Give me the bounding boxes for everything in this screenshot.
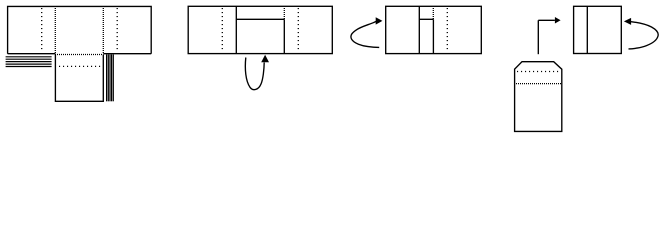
step2 right sparse fold mark (297, 8, 299, 52)
step2 folded flap left edge (235, 6, 237, 53)
step2 fold-up arrow (245, 58, 264, 90)
step3 dense fold line (432, 8, 434, 19)
step1 right glue hatch (107, 55, 114, 102)
step2 sheet outline (188, 6, 332, 53)
step5 sleeve outline (574, 6, 622, 53)
step1 right sparse fold mark (116, 8, 118, 52)
step4 insert arrow horizontal (538, 19, 555, 21)
step2 fold-up arrowhead (261, 55, 269, 63)
step2 folded flap right edge (283, 19, 285, 53)
step3 sheet outline (386, 6, 482, 53)
step4 insert arrowhead (555, 17, 561, 24)
step5 turn-over arrow (629, 22, 659, 49)
step1 bottom dense fold line (55, 54, 103, 56)
step3 folded panel edge (418, 6, 420, 53)
step1 left dense fold line (54, 8, 56, 53)
step3 sparse fold mark (446, 8, 448, 52)
step1 sheet outline (8, 6, 152, 53)
step1 left glue hatch (6, 57, 52, 67)
step4 pocket sparse dotted line (517, 71, 559, 73)
step2 folded flap top edge (236, 18, 284, 20)
step1 left sparse fold mark (41, 8, 43, 52)
step3 turn-over arrowhead (376, 17, 383, 24)
step1 square sparse dotted line (59, 65, 103, 67)
step4 pocket outline (515, 62, 562, 132)
step4 pocket dense dotted line (516, 83, 561, 85)
step5 sleeve spine line (586, 6, 588, 53)
step3 flap right edge (432, 19, 434, 53)
step4 insert arrow vertical (537, 20, 539, 54)
step5 turn-over arrowhead (624, 18, 631, 25)
step2 right dense fold line (283, 8, 285, 19)
step1 bottom square flap (55, 55, 103, 102)
step3 flap top edge (419, 18, 433, 20)
step1 right dense fold line (102, 8, 104, 53)
step2 left sparse fold mark (221, 8, 223, 52)
step3 turn-over arrow (351, 21, 379, 47)
